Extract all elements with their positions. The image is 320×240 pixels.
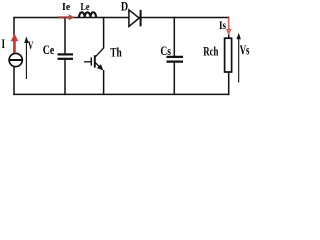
capacitor Cs vertical leads bbox=[173, 17, 175, 56]
diode D triangle bbox=[129, 10, 141, 27]
arrow Is (red, overlay pointing down) bbox=[226, 18, 232, 36]
svg-text:D: D bbox=[121, 0, 128, 14]
wire right vertical upper bbox=[228, 17, 230, 38]
svg-text:V: V bbox=[28, 40, 34, 52]
inductor Le coil bbox=[79, 12, 96, 17]
arrow Ie (red, on top wire pointing right) bbox=[58, 14, 75, 20]
capacitor Cs plates bbox=[167, 57, 184, 62]
wire left vertical (source branch) bbox=[13, 17, 15, 54]
transistor Th emitter lead down bbox=[103, 70, 105, 95]
svg-text:Le: Le bbox=[81, 1, 90, 13]
arrow Vs (thin black, pointing up) bbox=[237, 33, 241, 83]
svg-text:Th: Th bbox=[110, 45, 122, 60]
svg-text:I: I bbox=[2, 36, 6, 51]
resistor Rch (box) bbox=[225, 38, 232, 72]
svg-text:Ce: Ce bbox=[43, 42, 55, 57]
svg-text:Rch: Rch bbox=[203, 44, 219, 59]
wire top horizontal bbox=[14, 17, 229, 19]
capacitor Ce plates bbox=[58, 54, 74, 58]
current source I (circle with bar) bbox=[9, 53, 22, 66]
svg-text:Vs: Vs bbox=[240, 44, 250, 59]
arrow V (thin black, pointing up) bbox=[24, 37, 28, 80]
svg-text:Cs: Cs bbox=[160, 43, 171, 58]
wire bottom horizontal bbox=[13, 93, 229, 95]
svg-text:Ie: Ie bbox=[62, 1, 70, 13]
transistor Th (IGBT) collector lead bbox=[103, 17, 105, 49]
transistor Th gate lead bbox=[84, 61, 91, 63]
transistor Th gate bar bbox=[90, 57, 92, 65]
transistor Th body bar bbox=[94, 55, 96, 67]
transistor Th emitter with arrow bbox=[95, 62, 103, 70]
capacitor Ce vertical leads bbox=[64, 17, 66, 54]
svg-text:Is: Is bbox=[219, 20, 226, 32]
arrow I (red, pointing up along source branch) bbox=[11, 33, 19, 53]
wire right vertical lower bbox=[228, 72, 230, 95]
